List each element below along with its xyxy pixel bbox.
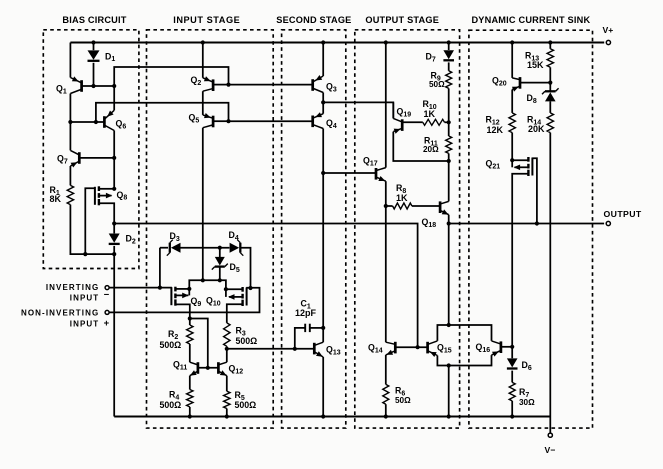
wire Q10 drain stub down to R3: [227, 304, 243, 323]
wire clamp top to output line: [448, 224, 450, 326]
wire Q5 collector down to sources: [202, 128, 204, 281]
wire D4 to Q10 gate drop: [241, 248, 251, 288]
wire Q21 bulk arrow: [515, 166, 529, 168]
wire Q5 base right: [213, 120, 228, 122]
node rail-Q2Q5: [201, 40, 205, 44]
wire Q2 collector to Q5 emitter: [202, 91, 204, 115]
wire R2 to Q11 collector: [189, 344, 191, 362]
wire D8 to R14: [549, 101, 551, 113]
diode D5 (zener): [215, 257, 225, 266]
svg-text:15K: 15K: [527, 60, 544, 70]
wire Q15/Q16 emitter loop: [437, 355, 491, 365]
svg-text:500Ω: 500Ω: [236, 336, 258, 346]
diode D8 (zener): [545, 92, 556, 101]
wire Q3 collector to Q19 collector: [323, 102, 393, 118]
svg-text:20Ω: 20Ω: [423, 145, 439, 154]
transistor Q12: [217, 362, 220, 374]
wire Q1 base to column: [82, 85, 115, 87]
wire inverting input to Q9 gate: [109, 287, 172, 289]
resistor R12: [509, 113, 515, 133]
transistor Q3: [311, 79, 314, 91]
node clamp top: [447, 323, 451, 327]
wire D1 bottom: [93, 63, 95, 86]
wire R5 to rail: [226, 409, 228, 417]
node R5 rail: [225, 414, 229, 418]
wire R13 to D8 node: [549, 67, 551, 91]
capacitor C1: [304, 324, 306, 332]
wire Q8 drain stub down to D2: [99, 203, 114, 233]
wire to Q17 base: [323, 172, 376, 174]
node clamp bottom: [447, 363, 451, 367]
wire R13 top lead: [549, 43, 551, 49]
svg-text:INVERTING: INVERTING: [46, 283, 99, 292]
wire Q4 emitter from node: [322, 102, 324, 113]
svg-text:1K: 1K: [424, 109, 436, 119]
wire D1 top: [93, 43, 95, 51]
resistor R4: [187, 390, 193, 407]
node C1 to base wire: [293, 347, 297, 351]
svg-text:500Ω: 500Ω: [160, 340, 182, 350]
wire Q7 collector up: [69, 122, 71, 150]
resistor R13: [547, 49, 553, 68]
node Q1 base right: [112, 84, 116, 88]
transistor Q18: [439, 201, 442, 213]
resistor R8 (horizontal): [393, 203, 412, 209]
resistor R9: [446, 71, 452, 89]
terminal non-inverting input: [105, 310, 109, 314]
wire Q7 base to column: [79, 157, 114, 159]
wire Q18 emitter to output node: [448, 215, 450, 224]
wire Q13 base wire: [227, 348, 314, 350]
node Q2 base: [226, 83, 230, 87]
node clamp rail: [447, 414, 451, 418]
node Q5 base: [226, 119, 230, 123]
svg-text:OUTPUT STAGE: OUTPUT STAGE: [365, 15, 439, 25]
resistor R3: [224, 323, 230, 346]
transistor Q20: [519, 77, 522, 89]
resistor R1: [67, 185, 73, 204]
wire Q6 emitter from Q1 base node: [113, 86, 115, 110]
node line-A start: [112, 221, 116, 225]
svg-text:+: +: [104, 318, 110, 329]
transistor Q13: [313, 343, 316, 355]
svg-text:−: −: [104, 289, 110, 300]
diode D2: [109, 234, 120, 243]
node Q21 source: [510, 158, 514, 162]
mosfet Q9: [174, 287, 176, 292]
wire Q2/Q3 base line: [229, 84, 313, 86]
wire clamp bottom to rail: [448, 366, 450, 417]
wire Q12 emitter to R5: [226, 376, 228, 392]
transistor Q6: [103, 116, 106, 128]
node sources center: [201, 278, 205, 282]
node C1 right: [321, 326, 325, 330]
node output Q18: [447, 221, 451, 225]
resistor R6: [383, 384, 389, 404]
mosfet Q10: [241, 287, 243, 292]
wire Q10 source stub: [226, 288, 243, 290]
wire V- rail: [114, 416, 550, 418]
transistor Q17: [375, 168, 378, 180]
wire Q20 collector to R12: [511, 90, 513, 113]
wire Q13 collector from column: [322, 328, 324, 342]
wire Q17 emitter column down to Q14 collector: [385, 206, 387, 342]
wire Q11-Q12 base: [198, 367, 219, 369]
node Q1 base D1: [91, 84, 95, 88]
wire output line: [449, 223, 604, 225]
node Q8 source: [112, 187, 116, 191]
resistor R11: [446, 136, 452, 153]
mosfet Q21: [527, 157, 529, 162]
svg-text:50Ω: 50Ω: [429, 80, 445, 89]
wire Q20 base to R13 column: [520, 82, 550, 84]
wire Q6 base left: [70, 121, 104, 123]
node R7 rail: [510, 414, 514, 418]
wire Q19 collector up to Q3 line: [392, 102, 394, 118]
node D3 to gate: [158, 286, 162, 290]
wire Q8 bulk arrow: [99, 195, 112, 197]
node Q20 base R13: [548, 81, 552, 85]
node R4 rail: [188, 414, 192, 418]
svg-text:OUTPUT: OUTPUT: [604, 209, 642, 219]
bias circuit stage box (dashed): [43, 30, 139, 269]
transistor Q5: [212, 116, 215, 128]
wire D3 left lead: [160, 247, 168, 249]
resistor R10 (horizontal): [423, 119, 445, 125]
wire Q2 base right: [213, 84, 228, 86]
svg-text:INPUT STAGE: INPUT STAGE: [173, 15, 240, 25]
transistor Q1: [80, 80, 83, 92]
wire Q9 bulk tie: [188, 289, 190, 296]
transistor Q15: [426, 342, 429, 354]
node D5 sources: [218, 278, 222, 282]
wire Q21 gate lead to output line: [532, 158, 537, 223]
wire Q20 emitter from rail: [511, 43, 513, 78]
wire R1 bottom to D2 bottom node: [70, 205, 114, 255]
node D4-D5: [218, 246, 222, 250]
wire Q4 collector down to Q17 base node: [322, 129, 324, 174]
wire Q7 emitter down to R1: [69, 166, 71, 185]
wire Q19 emitter down and right to R11 node: [393, 132, 448, 161]
wire Q10 bulk arrow: [229, 296, 243, 298]
wire D5 top lead: [219, 248, 221, 257]
wire Q1 base feed to Q2/Q3 bases: [114, 67, 228, 86]
wire Q10 bulk tie: [225, 289, 227, 297]
terminal inverting input: [105, 286, 109, 290]
output stage box (dashed): [355, 30, 460, 428]
transistor Q4: [311, 116, 314, 128]
node R10 right: [447, 120, 451, 124]
node rail-Q3Q4: [321, 40, 325, 44]
mosfet Q8: [98, 186, 100, 191]
node mirror base tie: [416, 345, 420, 349]
transistor Q2: [212, 79, 215, 91]
wire Q3 emitter from rail: [322, 43, 324, 77]
wire D6 to R7: [511, 371, 513, 383]
wire D7 to R9: [448, 62, 450, 70]
wire D5 bottom lead: [219, 268, 221, 281]
wire Q2 emitter from rail: [202, 43, 204, 78]
node Q3 collector: [321, 100, 325, 104]
wire C1 left plate to base wire: [295, 328, 305, 349]
node rail-Q17: [384, 40, 388, 44]
svg-text:BIAS CIRCUIT: BIAS CIRCUIT: [62, 15, 126, 25]
diode D4: [230, 243, 240, 253]
wire Q9 drain stub down to R2: [175, 304, 189, 325]
svg-text:500Ω: 500Ω: [160, 400, 182, 410]
wire R8 right lead to Q18 base: [412, 205, 440, 207]
node Q10 source: [224, 287, 228, 291]
wire R6 to rail: [385, 404, 387, 416]
svg-text:30Ω: 30Ω: [519, 398, 535, 407]
wire Q1 collector down: [69, 94, 71, 123]
resistor R2: [187, 325, 193, 344]
dynamic current sink box (dashed): [469, 30, 593, 428]
wire Q9 bulk arrow: [175, 294, 188, 296]
wire branch to mirror bases: [190, 319, 208, 368]
wire Q15/Q16 collector loop: [437, 325, 491, 341]
node rail-D1: [91, 40, 95, 44]
wire Q3 collector down: [322, 93, 324, 103]
svg-text:INPUT: INPUT: [70, 320, 100, 329]
wire D2 bottom lead: [113, 246, 115, 254]
wire R12 to Q21 source node: [511, 133, 513, 161]
wire R8 left lead: [386, 205, 393, 207]
svg-text:SECOND STAGE: SECOND STAGE: [276, 15, 351, 25]
diode D3: [171, 243, 181, 253]
node R11 bottom: [447, 159, 451, 163]
node R3 bottom: [225, 347, 229, 351]
svg-text:12K: 12K: [487, 125, 504, 135]
wire Q11 emitter to R4: [189, 376, 191, 390]
resistor R7: [509, 382, 515, 401]
svg-text:20K: 20K: [528, 124, 545, 134]
resistor R14: [547, 113, 553, 133]
wire Q21 drain down to D6: [512, 174, 528, 358]
transistor Q14: [394, 342, 397, 354]
wire Q8 source stub: [99, 188, 114, 190]
diode D6: [507, 358, 518, 367]
diode D1: [88, 50, 100, 59]
node D2 bottom: [112, 252, 116, 256]
wire Q16 base to sink column: [501, 346, 512, 348]
wire bias feed to Q5/Q4 bases: [96, 103, 229, 122]
wire Q1 emitter from V+ rail: [69, 43, 71, 78]
wire R14 down to V- rail: [549, 133, 551, 417]
wire Q13 emitter to rail: [322, 357, 324, 417]
input stage box (dashed): [147, 30, 274, 428]
wire bias-to-mirror-bases line: [114, 224, 417, 348]
wire Q9-Q10 sources: [189, 280, 226, 289]
wire bias column to V- rail: [113, 254, 115, 416]
transistor Q16: [500, 341, 503, 353]
svg-text:V−: V−: [545, 445, 556, 455]
wire non-inverting input to Q10 gate: [109, 288, 259, 313]
wire D7 top lead: [448, 43, 450, 51]
diode D7: [443, 50, 454, 59]
node Q7 base: [112, 156, 116, 160]
node Q9 drain branch: [188, 316, 192, 320]
wire R3 to Q12 collector: [226, 346, 228, 362]
wire Q17 emitter down: [385, 181, 387, 206]
wire D3 drop to Q9 gate: [159, 248, 161, 288]
node Q1 collector / Q6 base: [68, 120, 72, 124]
node Q16 base sink: [510, 345, 514, 349]
node Q6 base branch: [94, 120, 98, 124]
node rail-R13: [548, 40, 552, 44]
transistor Q7: [78, 152, 81, 164]
wire R11 bottom lead: [448, 153, 450, 161]
wire R9 to R10 node: [448, 88, 450, 122]
wire Q9 source stub: [175, 288, 189, 290]
svg-text:500Ω: 500Ω: [235, 400, 257, 410]
transistor Q11: [197, 362, 200, 374]
svg-text:NON-INVERTING: NON-INVERTING: [21, 308, 99, 317]
node second stage node: [321, 171, 325, 175]
wire R11 top lead: [448, 122, 450, 136]
node rail-D7: [447, 40, 451, 44]
node mirror bases: [206, 366, 210, 370]
node Q21 gate output: [535, 221, 539, 225]
wire C1 right plate lead: [310, 327, 323, 329]
wire Q17 collector to rail: [385, 43, 387, 168]
svg-text:8K: 8K: [50, 194, 62, 204]
wire Q6-Q7 column to Q8 source: [113, 158, 115, 189]
wire R10 left lead to Q19 base: [402, 121, 423, 123]
terminal V+: [606, 40, 610, 44]
wire R10 right lead: [445, 121, 449, 123]
wire Q21 source stub: [512, 159, 528, 161]
node D4 to gate: [248, 286, 252, 290]
wire V+ rail: [70, 42, 604, 44]
wire Q14 emitter to R6: [385, 355, 387, 385]
svg-text:1K: 1K: [396, 193, 408, 203]
svg-text:DYNAMIC CURRENT SINK: DYNAMIC CURRENT SINK: [471, 15, 590, 25]
terminal V-: [548, 433, 552, 437]
wire Q6 collector down to Q7 base node: [113, 131, 115, 158]
svg-text:50Ω: 50Ω: [395, 396, 411, 405]
wire R4 to rail: [189, 407, 191, 417]
resistor R5: [224, 391, 230, 408]
node rail-Q20: [510, 40, 514, 44]
svg-text:12pF: 12pF: [295, 308, 317, 318]
node Q13 rail: [321, 414, 325, 418]
second stage box (dashed): [282, 30, 346, 428]
wire R11 node to Q18 collector: [448, 161, 450, 201]
transistor Q19: [401, 119, 404, 131]
wire Q21 bulk tie: [511, 160, 513, 167]
wire D3 to D4: [181, 247, 230, 249]
wire R7 to rail: [511, 401, 513, 417]
node Q9 source: [187, 287, 191, 291]
node R8 left: [384, 204, 388, 208]
wire Q8 gate lead: [85, 188, 94, 254]
wire second stage column: [322, 173, 324, 328]
svg-text:INPUT: INPUT: [70, 293, 100, 302]
wire V- terminal drop: [549, 417, 551, 434]
wire Q14 base to Q15: [395, 346, 427, 348]
terminal OUTPUT: [606, 221, 610, 225]
wire Q5/Q4 base line: [229, 120, 313, 122]
node Q8 gate tap: [83, 252, 87, 256]
svg-text:V+: V+: [603, 25, 614, 35]
node R6 rail: [384, 414, 388, 418]
